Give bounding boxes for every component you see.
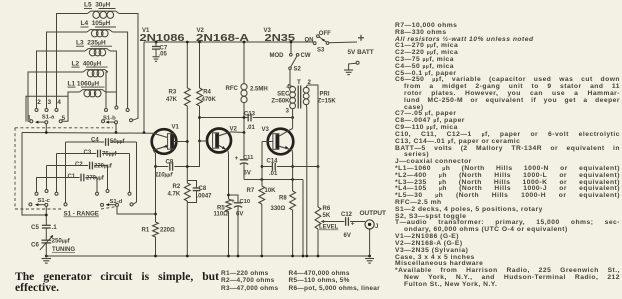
node R8 bus junction [291, 178, 294, 181]
svg-text:2N1086: 2N1086 [140, 33, 186, 44]
switch S1-a rotary section [26, 96, 68, 124]
svg-text:2.5MH: 2.5MH [250, 87, 268, 93]
svg-text:C4: C4 [91, 138, 99, 144]
svg-text:3: 3 [48, 99, 52, 106]
wire V3 emitter down [291, 150, 294, 191]
svg-text:ON: ON [305, 38, 314, 44]
node V2 emitter branch [227, 194, 230, 197]
resistor R7 10K [247, 186, 277, 256]
node rail junction [260, 255, 263, 258]
capacitor C5 .1uF [31, 206, 57, 231]
variable capacitor C6 250uuF TUNING [31, 228, 75, 256]
transistor V3 2N35 [262, 28, 296, 154]
resistor R2 4.7K [168, 183, 191, 201]
svg-text:S1-b: S1-b [103, 116, 116, 122]
node rail junction [291, 255, 294, 258]
node R4 rail junction [198, 41, 201, 44]
svg-text:RFC: RFC [226, 86, 239, 92]
svg-text:OFF: OFF [319, 31, 331, 37]
wire L4 left lead [47, 32, 88, 109]
coil L1 1060uH [68, 80, 106, 97]
svg-text:47K: 47K [166, 97, 178, 103]
wire S1-d wiper to R1 node [117, 206, 156, 214]
dashed link to S1-d wiper [101, 207, 115, 209]
node rail junction [237, 255, 240, 258]
wire C12 to output jack [350, 221, 365, 223]
wire V2 emitter down [227, 150, 230, 199]
svg-text:6V: 6V [236, 212, 243, 218]
svg-text:R1: R1 [142, 228, 150, 234]
svg-text:L1 1060µH: L1 1060µH [68, 80, 100, 87]
node S1-d feed junction [154, 213, 157, 216]
node C9 left junction [154, 165, 157, 168]
wire C2 right drop [107, 166, 109, 190]
svg-text:4: 4 [57, 99, 61, 106]
svg-text:S2: S2 [294, 67, 302, 73]
node rail drop junction [143, 131, 146, 134]
capacitor C4 50uuF [66, 138, 137, 146]
wire C4 left to S1-c [65, 142, 67, 203]
wire top supply rail [144, 41, 313, 43]
wire C3 left drop [56, 154, 58, 193]
node rail junction [368, 255, 371, 258]
wire L1 left lead [62, 92, 79, 121]
wire C3 right drop [129, 154, 131, 193]
node C14 to R6 junction [317, 165, 320, 168]
node C13 crossing [243, 116, 246, 119]
node C14 right junction [291, 165, 294, 168]
wire V1 collector feed from rail [143, 42, 145, 133]
wire L3 left lead [37, 51, 86, 109]
node RFC rail junction [243, 41, 246, 44]
capacitor C2 220uuF [47, 162, 113, 170]
wire L4 right lead [113, 32, 128, 109]
capacitor C3 75uuF [57, 150, 130, 158]
wire V2 base node down to bias node [187, 141, 199, 167]
wire S1-b wiper to tank line [115, 124, 117, 133]
svg-text:CW: CW [301, 53, 311, 59]
jack J OUTPUT [360, 210, 387, 230]
svg-text:C5: C5 [31, 224, 39, 231]
wire C2 left drop [46, 166, 48, 190]
wire R2 to ground rail [186, 201, 188, 256]
capacitor C10 1uF electrolytic [229, 195, 251, 256]
node V2 collector junction [243, 131, 246, 134]
wire V2 base [200, 140, 208, 142]
svg-text:S1-a: S1-a [42, 114, 55, 120]
wire L5 right lead to switch S1-b [119, 14, 138, 121]
svg-text:R7: R7 [247, 188, 255, 194]
svg-text:110Ω: 110Ω [214, 212, 229, 218]
node tuning junction [45, 214, 48, 217]
capacitor C12 1uF electrolytic [341, 212, 355, 239]
svg-text:330Ω: 330Ω [271, 206, 286, 212]
wire V2 collector to RFC node [231, 131, 244, 134]
svg-text:+: + [235, 155, 239, 162]
svg-text:75µµf: 75µµf [102, 152, 117, 158]
node rail junction [305, 255, 308, 258]
switch S3 ON-OFF [305, 31, 332, 54]
svg-text:C13: C13 [244, 112, 256, 118]
svg-text:6V: 6V [244, 171, 251, 177]
ground for battery [344, 69, 353, 71]
transistor V2 2N168-A [196, 28, 249, 153]
node rail junction [154, 255, 157, 258]
resistor list column 1 [221, 270, 278, 292]
svg-text:R4: R4 [203, 90, 211, 96]
svg-text:L3 235µH: L3 235µH [76, 39, 106, 46]
node rail junction [45, 255, 48, 258]
svg-text:S3: S3 [317, 48, 325, 54]
svg-text:TUNING: TUNING [52, 247, 75, 253]
node bias junction [186, 165, 189, 168]
wire R6 wiper to C12 [322, 221, 345, 223]
resistor list column 2 [289, 270, 380, 292]
capacitor C7 .05uF [152, 42, 168, 57]
wire V1 base to R3 node [174, 141, 188, 143]
node C13 line tap [198, 116, 201, 119]
svg-text:Z=15K: Z=15K [318, 99, 337, 105]
node SEC-V3 junction [291, 116, 294, 119]
dashed gang link S1 [15, 127, 113, 129]
wire V1 emitter down [153, 150, 155, 166]
wire R4 down to V2 base [199, 106, 201, 141]
svg-text:LEVEL: LEVEL [319, 225, 339, 231]
node S2 rail junction [290, 41, 293, 44]
resistor R5 110 ohms [214, 199, 232, 256]
transistor V1 2N1086 [140, 28, 186, 154]
wire C4 right to S1-d [133, 142, 137, 204]
svg-text:250µµf: 250µµf [52, 238, 71, 245]
svg-text:V1: V1 [172, 125, 180, 131]
wire L1 right lead [106, 91, 117, 93]
svg-text:5V BATT: 5V BATT [348, 49, 374, 56]
svg-text:R3: R3 [169, 90, 177, 96]
wire audio bias bus [244, 179, 303, 181]
resistor R8 330 ohms [271, 191, 296, 256]
node S1-b wiper junction [115, 131, 118, 134]
svg-text:R6: R6 [323, 206, 331, 212]
node rail junction [317, 255, 320, 258]
svg-text:6V: 6V [344, 233, 351, 239]
svg-text:470K: 470K [202, 97, 217, 103]
switch S1-b rotary section [102, 106, 133, 124]
svg-text:OUTPUT: OUTPUT [360, 210, 387, 217]
svg-text:2: 2 [37, 99, 41, 106]
svg-text:V3: V3 [262, 127, 270, 133]
svg-text:.0047: .0047 [197, 194, 213, 200]
svg-text:220Ω: 220Ω [160, 228, 175, 234]
battery 5V BATT [348, 35, 374, 70]
ground at output [365, 258, 374, 260]
wire L3 right lead [110, 51, 116, 106]
capacitor C8 .0047uF [187, 181, 212, 203]
node C7 rail junction [155, 41, 158, 44]
coil L3 235uH [76, 39, 112, 56]
wire bias bus to ground rail [302, 180, 304, 257]
svg-text:C6: C6 [31, 242, 39, 249]
node V1 base junction [186, 140, 189, 143]
svg-text:L2 400µH: L2 400µH [72, 60, 102, 67]
dashed gang link bottom [15, 208, 62, 210]
svg-text:.1: .1 [52, 224, 58, 231]
coil L2 400uH [72, 60, 109, 77]
svg-text:.05: .05 [159, 51, 168, 57]
svg-text:10K: 10K [265, 188, 277, 194]
node rail junction [227, 255, 230, 258]
node rail junction [186, 255, 189, 258]
wire V3 base column [261, 142, 263, 187]
wire S2 common to transformer terminal 4 [289, 70, 291, 86]
node rail junction [302, 255, 305, 258]
wire PRI bottom to ground rail [306, 109, 308, 257]
svg-text:.01: .01 [247, 125, 256, 131]
switch S1-d rotary section [96, 190, 134, 207]
wire bottom ground rail [46, 255, 369, 257]
capacitor C13 .01uF [200, 112, 293, 132]
svg-text:T: T [297, 79, 301, 86]
wire L2 right lead [106, 72, 108, 109]
resistor R3 47K [166, 42, 190, 106]
dashed gang link vertical [14, 128, 16, 209]
svg-text:4.7K: 4.7K [168, 192, 181, 198]
svg-text:S1 - RANGE: S1 - RANGE [64, 211, 99, 218]
wire jack to ground rail [369, 229, 371, 256]
caption text [15, 272, 219, 293]
svg-text:.01: .01 [269, 171, 278, 177]
svg-text:SEC: SEC [277, 92, 290, 98]
transformer T audio [271, 79, 336, 114]
node R7 bus junction [260, 178, 263, 181]
wire PRI terminal 2 to R6 column [309, 85, 318, 167]
coil L4 105uH [81, 20, 117, 37]
wire L5 left lead to switch S1-a [57, 14, 88, 109]
svg-text:R8: R8 [279, 196, 287, 202]
node C14 left junction [261, 165, 264, 168]
svg-text:270µµf: 270µµf [86, 176, 105, 182]
capacitor C9 110uuF [155, 160, 187, 179]
svg-text:L5 30µH: L5 30µH [84, 2, 110, 9]
svg-text:MOD: MOD [270, 53, 285, 59]
svg-text:3: 3 [286, 107, 290, 114]
node V2 base junction [198, 140, 201, 143]
capacitor C14 .01uF [262, 159, 318, 178]
node R3 rail junction [186, 41, 189, 44]
wire C1 left drop [36, 178, 38, 193]
svg-text:220µµf: 220µµf [94, 164, 113, 170]
ground for C7 [153, 56, 160, 58]
rf choke RFC 2.5mH [226, 42, 268, 133]
wire V3 base [262, 141, 273, 143]
node S1-a wiper junction [45, 131, 48, 134]
svg-text:Z=60K: Z=60K [271, 99, 290, 105]
svg-text:PRI: PRI [320, 92, 330, 98]
svg-text:110µµf: 110µµf [155, 173, 173, 179]
capacitor C1 270uuF [37, 174, 105, 182]
wire R3 to R2 column [186, 106, 188, 183]
svg-text:C10: C10 [240, 199, 251, 205]
ground for C6 [42, 258, 52, 260]
svg-text:+: + [231, 198, 235, 205]
wire tank line down to C5 [22, 133, 46, 216]
svg-text:S1-c: S1-c [38, 198, 51, 204]
coil L5 30uH [84, 2, 119, 19]
wire tank line to V1 [22, 132, 153, 135]
wire V3 collector to transformer terminal 3 [292, 111, 294, 129]
potentiometer R6 5K LEVEL [315, 167, 339, 257]
switch S2 MOD-CW [270, 42, 311, 73]
wire C1 right drop [96, 178, 98, 193]
svg-text:5K: 5K [323, 213, 331, 219]
resistor R4 470K [197, 42, 217, 106]
resistor R1 220 ohms [142, 167, 176, 257]
capacitor C11 1uF electrolytic [235, 133, 255, 180]
wire S3 to battery plus [329, 41, 357, 44]
svg-text:C12: C12 [341, 212, 353, 218]
wire L2 left lead [28, 72, 83, 121]
svg-text:J: J [375, 224, 378, 230]
switch S1-c rotary section [29, 190, 67, 207]
wire S1-a wiper to tank line [45, 124, 47, 133]
svg-text:R2: R2 [173, 184, 181, 190]
svg-text:L4 105µH: L4 105µH [81, 20, 111, 27]
svg-text:2N168-A: 2N168-A [196, 33, 249, 44]
